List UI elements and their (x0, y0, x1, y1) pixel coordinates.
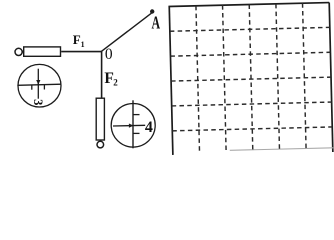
node O label (105, 46, 113, 63)
svg-text:F: F (73, 32, 81, 47)
grid (slightly rotated scan) (168, 3, 333, 156)
svg-text:2: 2 (113, 78, 118, 88)
magnifier circle: F2 reading (111, 104, 155, 148)
grid horizontal dashed line 2 (170, 52, 330, 56)
grid right border (329, 3, 333, 152)
F1 pointer arrowhead (36, 80, 40, 85)
svg-text:0: 0 (105, 46, 113, 63)
point A dot (150, 9, 154, 13)
grid vertical dashed line 2 (223, 5, 227, 153)
wire: F1 rod from barrel to node O (61, 51, 101, 53)
svg-text:A: A (152, 13, 161, 33)
grid top border (168, 3, 329, 7)
spring scale F1 hook (22, 51, 24, 53)
F1 scale tick left (31, 85, 33, 90)
grid horizontal dashed line 1 (170, 27, 330, 31)
F1 scale baseline (17, 84, 61, 85)
F1 pointer needle (37, 69, 39, 99)
grid vertical dashed line 3 (249, 5, 253, 153)
F2 reading value 4 (145, 119, 153, 136)
F2 scale tick upper (133, 114, 139, 116)
spring scale F1 barrel (24, 47, 61, 56)
wire: vertical line O down to F2 scale (101, 51, 103, 98)
grid vertical dashed line 4 (276, 4, 280, 152)
F1 scale tick right (43, 85, 45, 90)
F2 scale baseline vertical (132, 100, 134, 148)
wire: diagonal line O to A (102, 13, 152, 51)
grid left border (169, 6, 173, 154)
F2 scale tick lower (133, 132, 139, 134)
spring scale F2 barrel (96, 98, 104, 140)
F2 pointer needle (113, 124, 145, 127)
label F1 (73, 32, 85, 49)
magnifier circle: F1 reading (18, 64, 61, 107)
spring scale F2 ring (97, 141, 104, 148)
label A (152, 13, 161, 33)
grid bottom border (faint) (230, 148, 333, 151)
grid vertical dashed line 5 (303, 3, 307, 151)
grid horizontal dashed line 5 (172, 127, 332, 131)
svg-text:1: 1 (81, 40, 85, 49)
F2 pointer arrowhead (129, 124, 134, 128)
svg-text:3: 3 (31, 99, 45, 105)
label F2 (104, 70, 118, 87)
grid vertical dashed line 1 (196, 6, 200, 154)
grid horizontal dashed line 4 (172, 102, 332, 106)
grid horizontal dashed line 3 (171, 77, 331, 81)
spring scale F1 ring (15, 48, 22, 55)
svg-text:4: 4 (145, 119, 153, 136)
F1 reading value 3 (rotated) (31, 99, 45, 105)
